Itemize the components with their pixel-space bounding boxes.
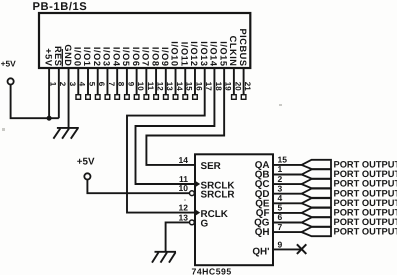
- svg-text:QH: QH: [255, 227, 270, 238]
- svg-text:SER: SER: [201, 161, 221, 172]
- svg-text:QH': QH': [252, 247, 269, 258]
- svg-text:RES: RES: [53, 46, 63, 67]
- svg-text:I/O6: I/O6: [131, 47, 141, 67]
- svg-text:1: 1: [278, 164, 283, 174]
- U1 output QA pin 15: [255, 155, 302, 171]
- J1 pin 9 I/O5: [121, 47, 135, 99]
- svg-text:I/O1: I/O1: [82, 47, 92, 67]
- scan speckles: [2, 104, 282, 201]
- svg-text:9: 9: [278, 239, 283, 249]
- wire +5V rail to pins 1 and 2: [11, 85, 59, 119]
- J1 pin 12 I/O8: [150, 47, 164, 99]
- no-connect X on QH': [297, 244, 306, 254]
- wire pin 19 I/O15 to SER: [146, 67, 224, 165]
- svg-text:13: 13: [179, 212, 189, 222]
- wire pin 17 I/O13 to RCLK: [127, 67, 205, 213]
- J1 pin 3 GND: [63, 44, 77, 127]
- U1 output QD pin 3: [255, 183, 302, 199]
- port output tag QE: [302, 198, 331, 207]
- svg-text:14: 14: [179, 155, 189, 165]
- port output tag QA: [302, 160, 331, 169]
- U1 output QB pin 1: [255, 164, 302, 180]
- svg-text:3: 3: [278, 183, 283, 193]
- wire G pin to ground 2: [166, 222, 190, 251]
- J1 pin 18 I/O14: [209, 41, 223, 91]
- svg-text:15: 15: [278, 155, 288, 165]
- svg-text:2: 2: [278, 174, 283, 184]
- J1 pin 21 PICBUS: [238, 28, 252, 99]
- svg-text:I/O10: I/O10: [170, 41, 180, 66]
- svg-text:PORT OUTPUT: PORT OUTPUT: [334, 188, 397, 198]
- svg-text:SRCLR: SRCLR: [201, 190, 235, 201]
- U1 G inversion bubble: [190, 220, 195, 225]
- J1 pin 6 I/O2: [92, 47, 106, 99]
- J1 pin 10 I/O6: [131, 47, 145, 99]
- J1 pin 14 I/O10: [170, 41, 184, 99]
- svg-text:I/O9: I/O9: [160, 47, 170, 67]
- svg-text:4: 4: [278, 193, 283, 203]
- svg-text:I/O15: I/O15: [218, 41, 228, 66]
- port output tag QG: [302, 217, 331, 226]
- wire pin 18 I/O14 to SRCLK: [136, 67, 215, 184]
- svg-text:I/O4: I/O4: [111, 47, 121, 67]
- svg-text:7: 7: [278, 222, 283, 232]
- svg-text:I/O7: I/O7: [141, 47, 151, 67]
- J1 pin 4 I/O0: [72, 47, 86, 99]
- svg-text:I/O5: I/O5: [121, 47, 131, 67]
- port output tag QH: [302, 227, 331, 236]
- wire +5V terminal 2 to SRCLR: [87, 180, 189, 194]
- svg-text:6: 6: [278, 212, 283, 222]
- J1 pin 16 I/O12: [189, 41, 203, 99]
- svg-text:I/O8: I/O8: [150, 47, 160, 67]
- J1 pin 15 I/O11: [179, 42, 193, 100]
- svg-text:+5V: +5V: [43, 48, 53, 67]
- U1 SRCLR inversion bubble: [190, 191, 195, 196]
- svg-text:PORT OUTPUT: PORT OUTPUT: [334, 179, 397, 189]
- J1 pin 11 I/O7: [141, 47, 155, 99]
- +5V terminal 1 circle: [8, 78, 14, 84]
- U1 output QG pin 6: [254, 212, 301, 228]
- svg-text:I/O2: I/O2: [92, 47, 102, 67]
- J1 pin 2 RES: [53, 46, 67, 118]
- U1 output QH pin 7: [255, 222, 302, 238]
- svg-text:I/O14: I/O14: [209, 41, 219, 67]
- U1 output QF pin 5: [256, 203, 302, 219]
- junction dot at pin 1: [47, 116, 52, 121]
- svg-text:PORT OUTPUT: PORT OUTPUT: [334, 169, 397, 179]
- port output tag QF: [302, 208, 331, 217]
- ground symbol 2: [152, 252, 176, 263]
- port output tag QC: [302, 179, 331, 188]
- svg-text:PORT OUTPUT: PORT OUTPUT: [334, 198, 397, 208]
- port output tag QD: [302, 189, 331, 198]
- U1 RCLK clock arrow: [196, 210, 201, 216]
- J1 pin 7 I/O3: [102, 47, 116, 99]
- svg-text:PORT OUTPUT: PORT OUTPUT: [334, 160, 397, 170]
- svg-text:I/O13: I/O13: [199, 41, 209, 66]
- U1 output QH' pin 9: [252, 239, 301, 257]
- U1 output QC pin 2: [255, 174, 302, 190]
- +5V terminal 2 circle: [84, 173, 90, 179]
- svg-text:10: 10: [179, 183, 189, 193]
- J1 pin 1 +5V: [43, 48, 57, 118]
- J1 pin 20 CLKIN: [228, 36, 242, 100]
- U1 SRCLK clock arrow: [196, 181, 201, 187]
- J1 pin 5 I/O1: [82, 47, 96, 99]
- J1 pin 13 I/O9: [160, 47, 174, 99]
- svg-text:G: G: [201, 219, 209, 230]
- svg-text:74HC595: 74HC595: [192, 267, 232, 275]
- port output tag QB: [302, 169, 331, 178]
- svg-text:I/O11: I/O11: [179, 42, 189, 67]
- svg-text:+5V: +5V: [1, 59, 17, 69]
- svg-text:12: 12: [179, 203, 189, 213]
- svg-text:PICBUS: PICBUS: [238, 28, 248, 66]
- svg-text:PB-1B/1S: PB-1B/1S: [33, 1, 88, 13]
- svg-text:CLKIN: CLKIN: [228, 36, 238, 67]
- svg-text:I/O12: I/O12: [189, 41, 199, 66]
- svg-text:PORT OUTPUT: PORT OUTPUT: [334, 227, 397, 237]
- J1 pin 19 I/O15: [218, 41, 232, 91]
- J1 pin 17 I/O13: [199, 41, 213, 91]
- svg-text:GND: GND: [63, 44, 73, 66]
- svg-text:I/O0: I/O0: [72, 47, 82, 67]
- IC U1 74HC595 body: [195, 154, 273, 265]
- svg-text:PORT OUTPUT: PORT OUTPUT: [334, 217, 397, 227]
- ground symbol 1: [53, 128, 78, 139]
- svg-text:+5V: +5V: [77, 157, 95, 168]
- connector J1 PB-1B/1S body: [39, 13, 250, 68]
- U1 output QE pin 4: [255, 193, 301, 209]
- J1 pin 8 I/O4: [111, 47, 125, 99]
- svg-text:I/O3: I/O3: [102, 47, 112, 67]
- svg-text:5: 5: [278, 203, 283, 213]
- svg-text:PORT OUTPUT: PORT OUTPUT: [334, 208, 397, 218]
